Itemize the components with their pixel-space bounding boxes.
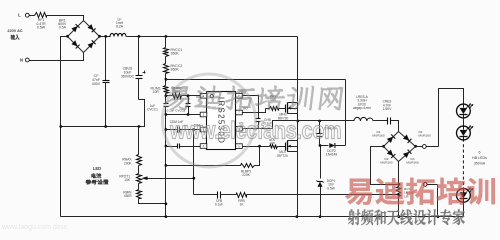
wire RPOT1 to RMIN [138, 184, 140, 190]
svg-text:LED: LED [93, 166, 101, 171]
capacitor CDM [165, 120, 194, 132]
wire charge pump riser [345, 80, 347, 146]
wire MHS source to VS node [297, 114, 300, 123]
svg-text:10R: 10R [152, 90, 159, 94]
resistor RVCC1 [164, 48, 183, 57]
resistor RFB [221, 193, 247, 207]
svg-text:www.elecfans.com: www.elecfans.com [169, 117, 341, 144]
resistor RVCC2 [164, 64, 183, 74]
svg-text:0.5W: 0.5W [37, 25, 46, 29]
wire HV rail down to MHS drain [297, 37, 299, 102]
wire CHB to VS row [258, 122, 260, 129]
svg-text:MUR160: MUR160 [380, 161, 392, 165]
label 6 HB LEDs 350mA [472, 151, 487, 166]
svg-text:CVCC1: CVCC1 [147, 107, 158, 111]
capacitor CF [92, 35, 110, 127]
diode DCP2 [319, 143, 346, 157]
svg-text:MUR160: MUR160 [406, 161, 418, 165]
capacitor CVCC1 [147, 96, 168, 115]
inductor LRES-A [353, 95, 373, 121]
svg-text:430R: 430R [124, 194, 132, 198]
resistor RF1 [35, 13, 47, 30]
svg-text:MUR160: MUR160 [419, 134, 431, 138]
LED LED2 [457, 125, 474, 140]
svg-text:200K: 200K [124, 161, 132, 165]
svg-text:0.1uF: 0.1uF [215, 203, 223, 207]
wire RLS to MLS gate [278, 146, 286, 148]
svg-text:400V: 400V [92, 82, 101, 86]
wire HO to RHS [243, 109, 266, 113]
zener DCP1 [317, 146, 336, 219]
wire COM vertical to ground [165, 115, 167, 217]
wire CBUS bottom jog to return [59, 100, 144, 128]
wire top DC bus [100, 36, 298, 38]
node VCC charge junction [165, 74, 168, 86]
wire LRES to CRES [374, 120, 388, 122]
wire CRES to output bridge [391, 121, 399, 132]
wire RHS to MHS gate [279, 108, 286, 110]
capacitor CBUS [121, 35, 146, 100]
wire LED3 to ground rail [463, 203, 465, 217]
wire LED1 to LED2 [463, 118, 465, 127]
svg-text:MUR160: MUR160 [372, 134, 384, 138]
svg-text:10K: 10K [124, 178, 131, 182]
svg-text:360K: 360K [171, 52, 180, 56]
svg-text:www.laogu.com dzsc: www.laogu.com dzsc [1, 224, 68, 231]
potentiometer RPOT1 [119, 174, 195, 184]
watermark www.elecfans.com [169, 117, 341, 144]
svg-text:47nF: 47nF [92, 78, 100, 82]
wire charge-pump feed [166, 79, 346, 81]
wire DIM to pin3 [192, 128, 200, 131]
svg-text:6: 6 [479, 151, 481, 155]
svg-text:N: N [20, 58, 23, 63]
svg-text:0.5W: 0.5W [327, 186, 334, 190]
svg-text:1.6KV: 1.6KV [383, 107, 393, 111]
capacitor CSNUB [317, 120, 336, 146]
resistor RHS [266, 94, 279, 110]
wire rail to RVCC1 [165, 35, 168, 48]
wire LED feed [439, 89, 464, 147]
LED LED3 [457, 188, 474, 203]
wire LO to RLS [243, 145, 270, 148]
wire bridge left to sense node [371, 147, 400, 185]
watermark faint bottom-left [1, 224, 68, 231]
capacitor CPH FMIN [165, 144, 201, 149]
wire RF1 to bridge top [47, 16, 84, 21]
wire VB to CHB [243, 96, 259, 119]
svg-text:350mA: 350mA [474, 162, 486, 166]
resistor RLMP1 [165, 147, 260, 178]
wire RMAX to RPOT1 [138, 166, 140, 174]
transistor MLS [277, 141, 297, 159]
svg-text:CF: CF [94, 74, 99, 78]
wire dashed LED string [462, 139, 464, 189]
resistor RLS [269, 138, 277, 149]
svg-text:0.5A: 0.5A [59, 26, 67, 30]
wire VS row [243, 121, 346, 129]
inductor LF [110, 18, 126, 37]
capacitor CRES [383, 100, 393, 125]
watermark seal ring [163, 74, 256, 167]
svg-text:350VDC: 350VDC [121, 74, 135, 78]
wire MLS source to ground [295, 152, 298, 219]
wire L to RF1 [30, 15, 35, 17]
resistor RLIM1 [151, 86, 169, 94]
resistor RCS [397, 185, 414, 219]
LED LED1 [457, 103, 474, 118]
resistor RLIM2 [166, 86, 182, 98]
wire bridge left corner to bottom rail [61, 37, 68, 217]
wire VS row to resonant tank [346, 120, 355, 122]
watermark gray slogan [348, 209, 465, 225]
wire jog to RMAX [138, 127, 140, 155]
capacitor CVCC2 [167, 94, 191, 114]
wire LED return [437, 185, 440, 219]
wire N to bridge bottom [30, 53, 84, 61]
resistor RMIN [123, 190, 141, 199]
wire MLS drain to VS node [297, 121, 299, 141]
svg-text:220V AC: 220V AC [7, 29, 23, 33]
capacitor CFB [194, 192, 224, 207]
label 220V AC input [7, 29, 23, 40]
bridge rectifier BR1 [58, 19, 101, 53]
wire RFB to sense node [247, 194, 400, 196]
wire VCC to pin1 [182, 94, 201, 97]
svg-text:220K: 220K [242, 173, 250, 177]
wire RLIM1 to VCC node [165, 94, 168, 98]
capacitor CHB [256, 118, 273, 126]
svg-text:airgap=1mm: airgap=1mm [353, 106, 371, 110]
transistor MHS [278, 103, 298, 121]
op-amp U1 IC IRS2530D [194, 90, 249, 150]
node L (AC line input terminal) [18, 13, 29, 18]
resistor RMAX [122, 155, 141, 166]
wire DIM vertical [193, 130, 195, 195]
svg-text:360K: 360K [171, 68, 180, 72]
diode bridge D1-D4 [372, 130, 431, 165]
wire RMIN jog to COM [139, 199, 168, 206]
svg-text:0.2A: 0.2A [116, 25, 124, 29]
watermark script text [166, 86, 344, 111]
wire ground rail [61, 215, 464, 218]
svg-text:IRF720: IRF720 [277, 154, 288, 158]
label LED current reference [86, 166, 109, 184]
svg-text:L: L [18, 13, 21, 18]
wire COM row to pin2 [165, 113, 201, 116]
wire RVCC1 to RVCC2 [165, 57, 167, 64]
wire bridge bottom to RCS [398, 162, 401, 186]
svg-text:HB LEDs: HB LEDs [472, 156, 487, 160]
svg-text:1N4148: 1N4148 [326, 153, 337, 157]
node LED+ terminal [416, 145, 439, 149]
node N (AC neutral input terminal) [20, 58, 29, 63]
node LED- terminal [423, 183, 437, 187]
watermark red brand [345, 178, 495, 206]
